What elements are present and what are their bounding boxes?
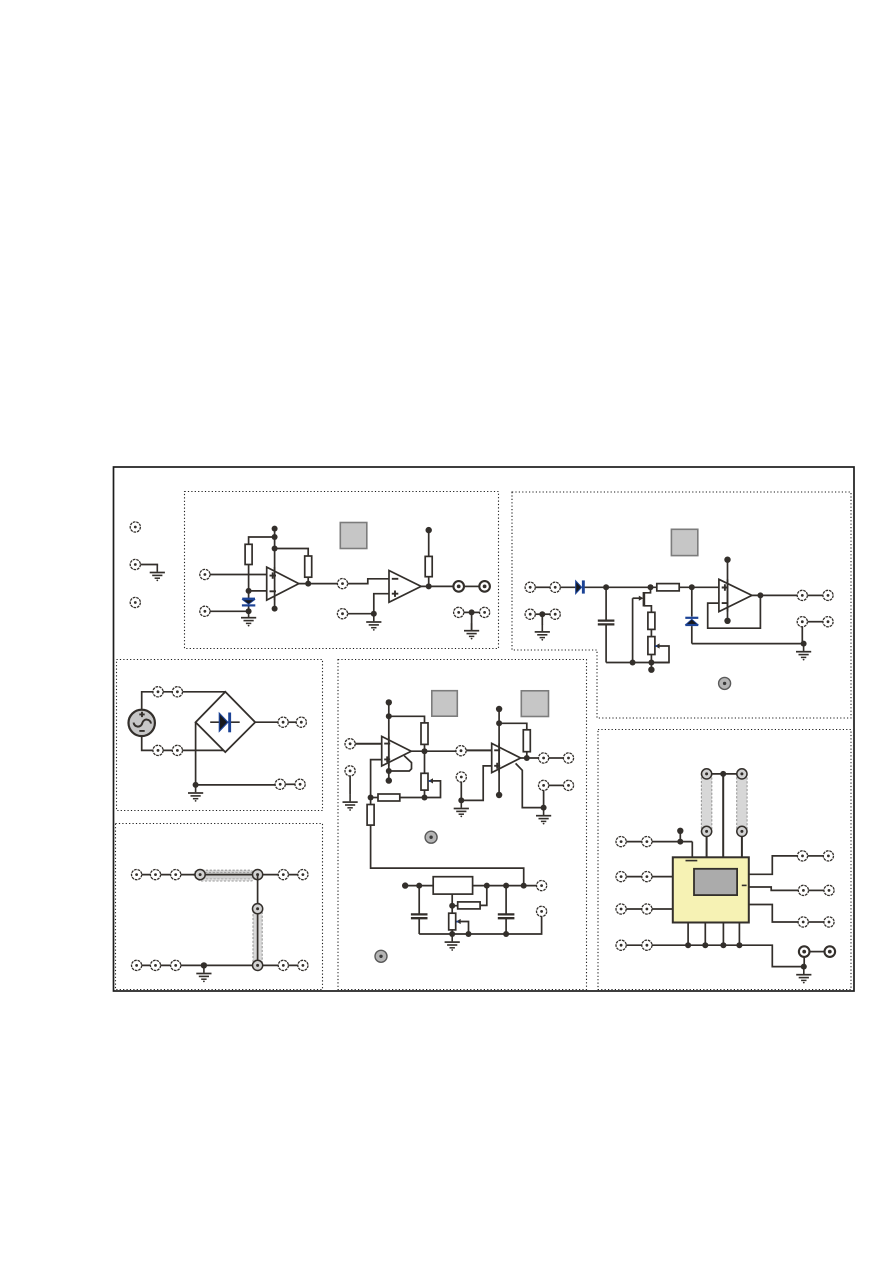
terminal A-OUT1 — [453, 581, 464, 592]
wire U4 output — [411, 750, 456, 752]
supply stub dot F — [677, 828, 683, 834]
wire U2 + input to ground node — [374, 594, 389, 614]
ground under bridge — [188, 786, 203, 802]
wire B-IN pair — [535, 586, 550, 588]
supply dot above U4 — [386, 699, 392, 705]
ground under output pair — [464, 623, 479, 639]
junction C ground node — [193, 782, 199, 788]
resistor R2 — [305, 556, 312, 577]
supply dot above R3 — [426, 527, 432, 533]
junction R1 top tap — [272, 534, 278, 540]
wire D2 to cap node — [585, 586, 657, 588]
wire C ground pair — [285, 783, 295, 785]
bridge rectifier BR1 — [196, 692, 256, 752]
gray label square D1 — [432, 691, 458, 717]
terminal D-VOUT — [537, 881, 547, 891]
terminal F-L1a — [616, 837, 626, 847]
zener diode D1 — [242, 591, 255, 611]
terminal B-IN2 — [550, 582, 560, 592]
wire F rowC pair — [808, 921, 823, 923]
wire bottom rail — [606, 662, 669, 664]
resistor R1 — [245, 544, 252, 564]
wire D lower pair — [549, 784, 564, 786]
terminal F-R2b — [824, 885, 834, 895]
terminal F-L2a — [616, 872, 626, 882]
IC block U7 — [673, 857, 749, 922]
wire F ground pair — [810, 951, 825, 953]
wire supply rail through U1 — [274, 529, 276, 609]
ground under zener node — [241, 610, 256, 626]
terminal B-GND1 — [797, 617, 807, 627]
wire U3 output — [752, 594, 797, 596]
terminal E-B5 — [278, 960, 288, 970]
wire U5 + input — [461, 766, 491, 801]
IC pin wire 3 — [722, 923, 724, 946]
terminal C-AC1b — [172, 687, 182, 697]
capacitor C1 — [598, 587, 615, 662]
wire tap to resistor R2 — [275, 549, 309, 557]
mounting hole D1 — [425, 831, 437, 843]
wire J1bot down — [706, 837, 708, 858]
wire adj node to R10 — [452, 905, 458, 907]
ground under P2 — [150, 565, 165, 581]
junction E ground node — [201, 962, 207, 968]
terminal F-L3b — [642, 904, 652, 914]
junction bottom rail pot — [648, 660, 654, 666]
wire VR1 bottom lead — [650, 655, 652, 663]
terminal B-IN1 — [525, 582, 535, 592]
op-amp U2 — [389, 571, 421, 603]
wire F bottom rail — [626, 945, 804, 966]
junction top supply dot — [272, 526, 278, 532]
junction U4 output node — [422, 748, 428, 754]
terminal A-MID — [337, 579, 347, 589]
terminal F-L2b — [642, 872, 652, 882]
wire U5 sense loop down — [516, 763, 544, 807]
junction + ground node — [371, 611, 377, 617]
wire F row1 — [626, 841, 692, 843]
dotted enclosure box A (top-left block) — [185, 492, 499, 649]
terminal E-T5 — [253, 870, 263, 880]
wire U5 supply rail — [498, 709, 500, 795]
ground under B input pair — [541, 614, 543, 625]
resistor R3 pull-up — [425, 556, 432, 576]
wire B-GND1 down — [801, 627, 803, 644]
IC pin wire 1 — [687, 923, 689, 946]
zener diode D3 — [685, 587, 698, 643]
junction pot ground — [449, 931, 455, 937]
wire F rowB pair — [809, 889, 824, 891]
resistor R6 — [421, 723, 428, 745]
wire between output terminals — [464, 585, 479, 587]
ground under regulator — [445, 935, 460, 951]
wire regulator adj pin — [451, 894, 453, 913]
wire capsule mid down — [722, 774, 724, 857]
ground under B output — [796, 644, 811, 660]
terminal A-IN2 — [200, 606, 210, 616]
junction U1 output node — [305, 581, 311, 587]
voltage regulator U6 — [433, 877, 472, 894]
wire to resistor R1 top — [249, 537, 275, 544]
terminal C-AC1a — [153, 687, 163, 697]
wire capsule top link — [712, 773, 737, 775]
wire inverting node to U1 - input — [249, 590, 267, 592]
dotted enclosure box B (top-right block, L-shaped) — [512, 492, 851, 718]
wire bridge output — [255, 721, 278, 723]
wire bottom rail regulator — [419, 917, 541, 934]
outer board frame — [114, 467, 855, 991]
terminal P2 — [130, 559, 140, 569]
wire R8 down to regulator rail — [371, 825, 524, 886]
wire F-G1 down — [803, 957, 805, 967]
terminal A-REF — [337, 609, 347, 619]
junction ground pair node — [469, 609, 475, 615]
IC pin wire 4 — [738, 923, 740, 946]
wire R10 up to output rail — [480, 886, 487, 906]
supply dot above U5 — [496, 706, 502, 712]
terminal C-OUTb — [296, 717, 306, 727]
terminal D-G2 — [563, 780, 573, 790]
terminal F-L4b — [642, 940, 652, 950]
dotted enclosure box E (jumper block) — [116, 824, 323, 990]
terminal E-T4 — [195, 870, 205, 880]
wire A-MID to op-amp U2 - input — [348, 579, 389, 584]
wire D-IN to op-amp U4 - input — [355, 743, 381, 745]
IC pin wire 2 — [704, 923, 706, 946]
wire B output pair — [808, 594, 823, 596]
wire D-MID to op-amp U5 - input — [466, 749, 492, 751]
resistor R10 — [458, 902, 480, 909]
wire stub down — [679, 831, 681, 842]
terminal C-GNDa — [275, 779, 285, 789]
IC notch mark — [686, 860, 698, 862]
terminal F-R3a — [798, 917, 808, 927]
junction C4 tap — [503, 883, 509, 889]
mounting hole B — [719, 677, 731, 689]
wire F rowA pair — [808, 855, 824, 857]
potentiometer VR3 — [449, 913, 469, 934]
gray label square B — [671, 529, 697, 555]
junction wiper ground — [466, 931, 472, 937]
terminal E-B4 — [253, 960, 263, 970]
terminal E-T7 — [298, 870, 308, 880]
wire P2 to ground — [141, 565, 158, 566]
resistor R9 — [523, 730, 530, 752]
terminal P1 — [130, 522, 140, 532]
wire input rail — [405, 885, 433, 887]
wire J2bot down — [741, 837, 743, 858]
terminal D-G1 — [539, 780, 549, 790]
wire A-IN2 to zener node — [210, 610, 249, 612]
junction inverting node — [246, 588, 252, 594]
wire R5 to zener node — [679, 586, 719, 588]
wire Q1 gate down — [632, 598, 634, 662]
wire stub below rail — [650, 663, 652, 668]
IC inner window — [694, 869, 737, 895]
terminal E-T6 — [278, 870, 288, 880]
wire regulator output rail — [473, 885, 537, 887]
wire B-IN2 to diode D2 — [560, 586, 577, 588]
wire B ground pair — [535, 613, 550, 615]
wire F row A — [749, 856, 798, 874]
junction zener node — [689, 584, 695, 590]
resistor R4 — [648, 612, 655, 629]
junction R2 top tap — [272, 546, 278, 552]
junction C4 ground — [503, 931, 509, 937]
wire B lower pair — [808, 621, 823, 623]
ground under D-REF2 — [454, 801, 469, 817]
wire V1 bottom — [142, 736, 224, 750]
wire feedback to resistor R9 — [499, 723, 527, 730]
wire U4 sense loop — [389, 756, 412, 771]
junction D + ground node — [458, 797, 464, 803]
wire D-REF2 down — [460, 782, 462, 800]
wire row1 into IC — [691, 842, 693, 858]
terminal D-REF2 — [456, 772, 466, 782]
terminal B-GNDa — [525, 609, 535, 619]
terminal F-J1top — [702, 769, 712, 779]
terminal F-L4a — [616, 940, 626, 950]
junction U3 output node — [757, 592, 763, 598]
terminal E-T2 — [150, 870, 160, 880]
potentiometer VR1 — [648, 637, 669, 663]
wire R3 top to supply dot — [428, 530, 430, 556]
wire U1 output to terminal — [299, 583, 338, 585]
junction capsule top — [720, 771, 726, 777]
junction cap node — [603, 584, 609, 590]
terminal F-R2a — [798, 885, 808, 895]
terminal B-GNDb — [550, 609, 560, 619]
junction C3 tap — [416, 883, 422, 889]
terminal E-B2 — [150, 960, 160, 970]
wire D-REF down — [349, 776, 351, 795]
jumper J4 — [737, 769, 747, 836]
input rail dot — [402, 882, 408, 888]
terminal A-GND1 — [454, 607, 464, 617]
junction B ground rail — [801, 641, 807, 647]
wire F row2 — [626, 876, 673, 878]
bridge diode symbol — [210, 713, 240, 733]
potentiometer VR2 — [421, 751, 441, 797]
terminal E-B3 — [171, 960, 181, 970]
junction R10 tap — [484, 883, 490, 889]
junction Q1 top — [648, 584, 654, 590]
junction rail pin4 — [736, 942, 742, 948]
gray label square D2 — [521, 691, 548, 717]
wire R2 bottom to output — [307, 577, 309, 583]
diode D2 — [576, 580, 585, 593]
terminal D-OUT1 — [539, 753, 549, 763]
wire bridge left arm down — [195, 722, 197, 785]
dotted enclosure box D (middle block) — [338, 660, 587, 990]
ground under F — [796, 967, 811, 983]
junction U2 output node — [426, 583, 432, 589]
terminal F-G1 — [799, 946, 810, 957]
wire F row3 — [626, 908, 673, 910]
jumper J1 — [194, 870, 255, 881]
terminal F-J1bot — [702, 826, 712, 836]
terminal D-OUT2 — [563, 753, 573, 763]
wire R7 right lead — [400, 797, 425, 799]
wire R1 bottom to inverting node — [248, 565, 250, 591]
wire D-G1 down — [543, 791, 545, 808]
terminal P3 — [130, 597, 140, 607]
wire A-IN1 to op-amp U1 + input — [210, 574, 267, 576]
wire C output pair — [288, 721, 296, 723]
IC right tick — [742, 884, 747, 886]
terminal E-T1 — [132, 870, 142, 880]
wire U3 feedback loop — [708, 595, 761, 628]
gray label square A — [340, 523, 367, 549]
terminal F-R1a — [797, 851, 807, 861]
junction rail pin1 — [685, 942, 691, 948]
terminal C-AC2b — [172, 745, 182, 755]
wire D output pair — [549, 757, 564, 759]
jumper J3 — [701, 769, 711, 836]
terminal D-VREF — [537, 906, 547, 916]
terminal B-OUT1 — [797, 590, 807, 600]
terminal F-R1b — [823, 851, 833, 861]
terminal B-OUT2 — [823, 590, 833, 600]
supply dot below U4 — [386, 777, 392, 783]
junction B ground node — [539, 611, 545, 617]
junction F row1 — [677, 839, 683, 845]
mounting hole D2 — [375, 950, 387, 962]
AC source V1 — [129, 710, 155, 736]
terminal F-J2bot — [737, 826, 747, 836]
wire R7 to VR2 node — [371, 797, 378, 799]
terminal C-GNDb — [295, 779, 305, 789]
terminal D-MID — [456, 746, 466, 756]
wire zener to ground rail — [692, 643, 804, 645]
op-amp U3 — [719, 579, 752, 611]
ground under E bottom row — [196, 966, 211, 982]
junction U4 feedback tap — [386, 713, 392, 719]
junction adj node — [449, 903, 455, 909]
supply dot below U5 — [496, 792, 502, 798]
terminal C-AC2a — [153, 745, 163, 755]
junction zener-ground node — [246, 608, 252, 614]
terminal A-GND2 — [480, 607, 490, 617]
wire R6 bottom to output — [424, 744, 426, 751]
junction D ground right — [541, 805, 547, 811]
wire U2 output — [421, 585, 453, 587]
terminal F-R3b — [824, 917, 834, 927]
wire R9 bottom to output — [526, 752, 528, 758]
junction F ground — [801, 964, 807, 970]
junction U4 lower rail — [386, 768, 392, 774]
junction U5 output node — [524, 755, 530, 761]
op-amp U1 — [267, 567, 299, 600]
junction bottom rail gate — [630, 660, 636, 666]
junction + input node — [368, 795, 374, 801]
capacitor C3 — [411, 886, 428, 934]
terminal F-L1b — [642, 837, 652, 847]
wire E vertical link — [257, 875, 259, 966]
ground under D-G1 — [536, 808, 551, 824]
resistor R5 series — [657, 584, 679, 591]
wire R3 bottom to output — [428, 577, 430, 587]
terminal E-M1 — [253, 904, 263, 914]
transistor Q1 — [633, 587, 652, 612]
wire E bottom row — [137, 964, 303, 966]
dotted enclosure box C (AC source block) — [117, 660, 323, 811]
terminal D-IN — [345, 739, 355, 749]
terminal B-GND2 — [823, 617, 833, 627]
wire between ground terminals — [464, 611, 479, 613]
wire F row B — [749, 887, 798, 890]
wire U4 + input — [371, 760, 382, 798]
junction output rail right — [521, 883, 527, 889]
junction U5 feedback tap — [496, 720, 502, 726]
junction rail pin3 — [720, 942, 726, 948]
terminal A-IN1 — [200, 569, 210, 579]
terminal D-REF — [345, 766, 355, 776]
terminal A-OUT2 — [479, 581, 490, 592]
junction U1 bottom supply dot — [272, 606, 278, 612]
junction rail pin2 — [702, 942, 708, 948]
wire A-REF to ground node — [348, 613, 374, 615]
terminal E-B1 — [132, 960, 142, 970]
wire U4 supply rail — [388, 702, 390, 780]
wire R4 to pot — [650, 629, 652, 636]
supply dot above U3 — [724, 557, 730, 563]
capacitor C4 — [498, 886, 515, 934]
resistor R8 — [367, 798, 374, 826]
wire U3 supply rail — [727, 560, 729, 621]
wire C ground rail — [196, 784, 275, 786]
terminal E-B6 — [298, 960, 308, 970]
resistor R7 — [378, 794, 400, 801]
dotted enclosure box F (IC block) — [598, 730, 851, 990]
terminal dot below rail — [648, 667, 654, 673]
wire F row C — [749, 905, 798, 923]
junction VR2 bottom node — [422, 795, 428, 801]
terminal F-G2 — [825, 946, 836, 957]
terminal E-T3 — [171, 870, 181, 880]
wire U5 output — [521, 757, 539, 759]
wire E top row — [137, 874, 303, 876]
terminal C-OUTa — [278, 717, 288, 727]
wire feedback to resistor R6 — [389, 716, 425, 723]
ground under D-REF — [343, 795, 358, 811]
supply dot below U3 — [724, 618, 730, 624]
op-amp U5 — [492, 743, 521, 772]
wire down to ground — [471, 612, 473, 629]
terminal F-L3a — [616, 904, 626, 914]
terminal F-J2top — [737, 769, 747, 779]
ground under U2 + — [366, 615, 381, 631]
jumper J2 — [253, 903, 262, 969]
op-amp U4 — [382, 736, 412, 766]
wire V1 top to bridge — [142, 692, 226, 710]
